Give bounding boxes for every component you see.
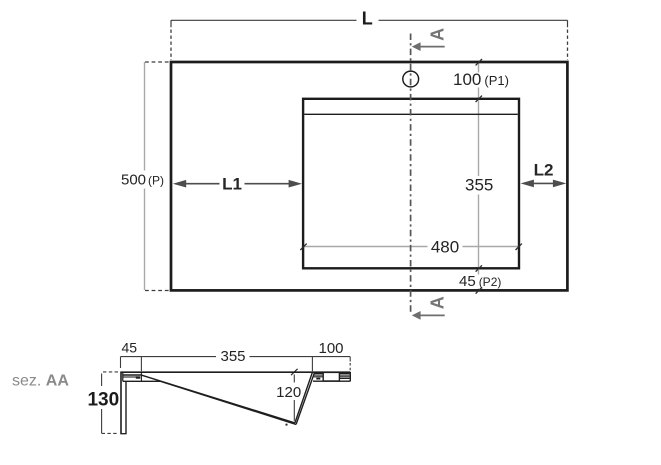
dimension arrow L2: [521, 180, 567, 188]
countertop outline: [171, 62, 567, 290]
section top surface: [120, 371, 350, 373]
section front apron inner: [125, 381, 127, 433]
section basin slope lower: [161, 381, 297, 424]
svg-text:100: 100: [318, 340, 343, 357]
tick at y290 on chain: [476, 287, 482, 293]
dimension chain vertical gray at x=479: [478, 63, 480, 290]
dimension 120: [293, 375, 295, 421]
section rim dark bar: [136, 376, 141, 378]
svg-text:L: L: [362, 9, 373, 29]
wire dashed extension top-right corner: [567, 30, 569, 61]
dimension bracket top of section: [121, 357, 351, 372]
wire dashed 130 bottom: [102, 432, 119, 434]
section right end cap: [349, 372, 351, 381]
svg-text:A: A: [428, 296, 448, 309]
svg-text:sez. AA: sez. AA: [12, 373, 69, 390]
section line A-A: [410, 34, 412, 314]
tick 120 top: [291, 369, 298, 375]
section front edge inner face: [122, 373, 124, 381]
section apron bottom cap: [120, 433, 126, 435]
section deck underside front: [123, 380, 161, 382]
wire dashed link to 500 line bottom: [145, 290, 170, 292]
svg-text:L2: L2: [534, 160, 554, 179]
dimension 130: [101, 374, 103, 434]
basin inner edge line: [304, 113, 518, 115]
wire dashed link to 500 line top: [145, 61, 170, 63]
section front apron outer: [120, 372, 122, 433]
svg-text:45: 45: [122, 340, 138, 356]
tick 480 left: [300, 244, 306, 250]
section marker A bottom: [412, 296, 448, 320]
section basin rise left: [295, 373, 312, 423]
svg-text:500(P): 500(P): [121, 171, 164, 188]
section hollow box: [323, 372, 339, 381]
section basin rise right: [296, 373, 314, 424]
tick 480 right: [516, 244, 522, 250]
tick at y62 on chain: [476, 59, 482, 65]
faucet hole circle: [403, 71, 419, 87]
svg-text:480: 480: [431, 237, 459, 256]
section deck underside right: [313, 380, 350, 382]
tick at y268 on chain: [476, 265, 482, 271]
svg-text:45(P2): 45(P2): [459, 273, 501, 290]
section marker A top: [412, 28, 448, 51]
section hatch strip left: [314, 373, 323, 376]
svg-text:L1: L1: [222, 175, 242, 194]
section rim ledge line1: [122, 374, 141, 376]
svg-text:A: A: [428, 28, 448, 41]
section hatch left dark blob: [316, 378, 320, 380]
dimension 500 (P) line: [144, 62, 146, 290]
tick dot 120 bottom: [285, 424, 287, 426]
section rim ledge line2: [122, 376, 137, 378]
tick at y99 on chain: [476, 96, 482, 102]
wire dash-dot right extension: [349, 363, 351, 372]
dimension L line top: [171, 20, 568, 27]
svg-text:130: 130: [87, 390, 119, 411]
dimension arrow L1: [173, 180, 302, 188]
section hatch strip right: [340, 373, 350, 378]
basin outline: [303, 99, 519, 268]
wire dashed 130 top: [103, 371, 119, 373]
section basin slope upper: [142, 375, 295, 423]
svg-text:120: 120: [276, 384, 301, 401]
svg-text:355: 355: [465, 176, 493, 195]
svg-text:355: 355: [220, 348, 245, 365]
section rim right edge vertical: [140, 372, 142, 382]
wire dashed extension top-left corner: [170, 30, 172, 61]
svg-text:100(P1): 100(P1): [453, 70, 509, 89]
dimension 480 gray line: [304, 246, 519, 248]
